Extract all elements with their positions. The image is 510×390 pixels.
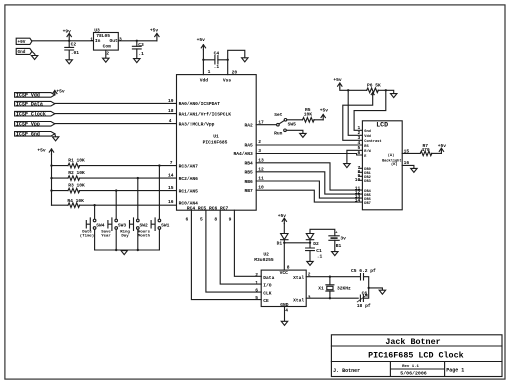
- wire D2 anode to battery: [310, 229, 335, 236]
- svg-text:PIC16F685 LCD Clock: PIC16F685 LCD Clock: [368, 351, 464, 361]
- LCD module: [362, 121, 402, 210]
- svg-text:M3u0255: M3u0255: [254, 257, 274, 263]
- pushbutton switch SW4: [80, 218, 105, 238]
- svg-text:5: 5: [255, 295, 258, 301]
- wire LCD R/W to ground: [347, 150, 363, 163]
- junction X1 bottom: [329, 297, 331, 299]
- svg-text:Gnd: Gnd: [364, 129, 370, 134]
- svg-text:5: 5: [200, 216, 203, 222]
- svg-text:DB3: DB3: [364, 180, 370, 184]
- wire +5v to D1 anode: [283, 224, 285, 234]
- svg-text:C4: C4: [214, 50, 220, 56]
- diode D1: [277, 234, 288, 247]
- ground below switches: [121, 251, 127, 255]
- node +5v at C3: [136, 40, 138, 42]
- wire ICSP Vpp to RA3 pin 4: [55, 123, 177, 125]
- svg-text:ICSP Gnd: ICSP Gnd: [16, 132, 40, 138]
- connector tag ICSP Vpp: [15, 122, 55, 128]
- wire U1 Vss pin 20 to ground: [228, 50, 245, 74]
- svg-text:RA5: RA5: [245, 142, 254, 148]
- svg-text:RC2/AN6: RC2/AN6: [179, 176, 199, 182]
- svg-text:B1: B1: [336, 243, 342, 249]
- junction R3 to SW3: [115, 189, 117, 191]
- svg-text:+9V: +9V: [18, 40, 26, 45]
- svg-text:SW1: SW1: [161, 222, 170, 228]
- svg-text:Page 1: Page 1: [446, 368, 464, 374]
- ground below C2: [66, 60, 72, 64]
- svg-text:P6 5K: P6 5K: [367, 82, 381, 88]
- wire rail to R1: [52, 165, 69, 167]
- svg-text:18 pf: 18 pf: [357, 303, 371, 309]
- wire R4 to RC0 pin 16: [79, 204, 176, 206]
- svg-text:10K: 10K: [304, 112, 313, 118]
- resistor R4: [68, 203, 80, 208]
- svg-text:ICSP Data: ICSP Data: [16, 102, 43, 108]
- svg-text:8: 8: [214, 216, 217, 222]
- LCD DB0-DB3 pin stubs: [359, 168, 363, 180]
- svg-text:RA3/!MCLR/Vpp: RA3/!MCLR/Vpp: [179, 122, 215, 128]
- wire C6 to ground node: [363, 288, 368, 298]
- wire SW1 branch vertical from resistor: [158, 166, 160, 250]
- wire R5 to +5v: [314, 119, 323, 121]
- capacitor C3 plates: [132, 46, 141, 49]
- connector tag ICSP Clock: [15, 111, 55, 117]
- voltage regulator U3 78L05: [90, 28, 122, 57]
- capacitor C2 plates: [65, 47, 74, 50]
- ground at U1 Vss: [242, 58, 248, 62]
- svg-text:SW3: SW3: [118, 222, 127, 228]
- svg-text:RB5: RB5: [245, 170, 254, 176]
- svg-text:4: 4: [169, 118, 172, 124]
- title block: [331, 335, 502, 377]
- wire RB6 pin 11 to LCD DB6: [256, 181, 362, 198]
- ground below C3: [134, 59, 140, 63]
- LCD pin numbers: [355, 125, 410, 203]
- resistor R1: [68, 163, 80, 168]
- svg-text:R3 10K: R3 10K: [68, 182, 85, 188]
- svg-text:16: 16: [168, 199, 174, 205]
- svg-text:32KHz: 32KHz: [337, 286, 351, 292]
- microcontroller U1 PIC16F685: [177, 75, 257, 212]
- svg-text:(A): (A): [388, 153, 394, 158]
- svg-text:1: 1: [208, 69, 211, 75]
- svg-text:7: 7: [170, 160, 173, 166]
- wire U3 Com pin 2 to ground: [105, 50, 107, 58]
- wire +5v to P6 left: [340, 88, 367, 90]
- ground at SW5 Run: [300, 133, 306, 137]
- svg-text:2: 2: [255, 272, 258, 278]
- P6 zigzag: [367, 88, 379, 93]
- svg-text:VCC: VCC: [280, 270, 289, 276]
- svg-text:+5v: +5v: [320, 108, 329, 114]
- capacitor C1 plates: [306, 248, 315, 251]
- junction rail R1: [50, 164, 52, 166]
- power symbol +5v at R7: [438, 143, 447, 153]
- wire R7 to +5v: [432, 152, 442, 154]
- connector tag Gnd input: [16, 48, 32, 55]
- wire D1 node to D2 node: [284, 242, 310, 244]
- svg-text:1: 1: [255, 280, 258, 286]
- svg-text:R/W: R/W: [364, 149, 371, 154]
- svg-text:6: 6: [255, 288, 258, 294]
- power symbol +5v at U1 Vdd: [197, 37, 206, 50]
- wire R3 to RC1 pin 15: [79, 190, 176, 192]
- svg-text:C6: C6: [362, 290, 368, 296]
- power symbol +5v at R5: [320, 108, 329, 120]
- wire U2 Xtal bottom to C6: [306, 297, 358, 299]
- svg-text:.1: .1: [138, 51, 144, 57]
- svg-text:(K): (K): [391, 162, 397, 167]
- svg-text:SW2: SW2: [140, 222, 149, 228]
- ground at LCD backlight: [411, 168, 417, 172]
- svg-text:5/06/2006: 5/06/2006: [400, 371, 426, 377]
- capacitor C5 6.2 pf: [351, 268, 376, 280]
- svg-text:C2: C2: [71, 41, 77, 47]
- pushbutton switch SW1: [138, 218, 170, 238]
- svg-text:ICSP Vdd: ICSP Vdd: [16, 93, 40, 99]
- svg-text:Data: Data: [263, 275, 274, 281]
- wire U2 GND pin 4 to ground: [284, 307, 286, 322]
- wire RB5 pin 12 to LCD DB5: [256, 172, 362, 194]
- svg-text:U1: U1: [213, 134, 219, 140]
- svg-text:RC3/AN7: RC3/AN7: [179, 163, 199, 169]
- power symbol +5v at D1: [278, 213, 287, 224]
- svg-text:+5v: +5v: [438, 143, 447, 149]
- wire battery to ground: [334, 240, 336, 251]
- svg-text:RB6: RB6: [245, 179, 254, 185]
- wire switch common to ground: [95, 249, 160, 251]
- svg-text:+5v: +5v: [333, 77, 342, 83]
- ground below C1: [307, 261, 313, 265]
- wire U2 Xtal top to C5: [306, 276, 360, 278]
- svg-text:18: 18: [168, 108, 174, 114]
- wire +5v to LCD Vdd pin 2: [348, 90, 362, 135]
- power symbol +9v at C2: [63, 29, 72, 41]
- svg-text:LCD: LCD: [376, 122, 388, 129]
- junction D2 C1 node: [309, 242, 311, 244]
- svg-text:Gnd: Gnd: [18, 50, 26, 55]
- svg-text:J. Botner: J. Botner: [333, 368, 360, 374]
- svg-text:3: 3: [119, 36, 122, 42]
- svg-text:Vdd: Vdd: [364, 134, 370, 139]
- node +9v at C2: [68, 40, 70, 42]
- svg-text:3v: 3v: [340, 235, 346, 241]
- svg-text:Out: Out: [110, 38, 119, 44]
- resistor R7 zigzag: [420, 151, 432, 156]
- crystal X1 32KHz: [318, 277, 351, 299]
- svg-text:RA4/AN3: RA4/AN3: [233, 151, 253, 157]
- svg-text:Set: Set: [274, 112, 283, 118]
- power symbol +5v at ICSP Vdd: [53, 89, 65, 95]
- wire RA2 pin 17 to SW5 common: [256, 124, 276, 126]
- wire ICSP Clock to RA1 pin 18: [55, 113, 177, 115]
- svg-text:RC4 RC5 RC6 RC7: RC4 RC5 RC6 RC7: [187, 206, 229, 212]
- junction SW2 common: [137, 249, 139, 251]
- power symbol +5v at U3 output: [150, 28, 159, 41]
- svg-text:+5v: +5v: [56, 89, 65, 95]
- svg-text:+5v: +5v: [278, 213, 287, 219]
- svg-text:.1: .1: [317, 253, 323, 259]
- wire LCD pin 15 to R7: [402, 152, 420, 154]
- svg-text:Run: Run: [274, 130, 283, 136]
- svg-text:Xtal: Xtal: [293, 298, 304, 304]
- ground at input Gnd tag: [31, 56, 37, 60]
- connector tag ICSP Vdd: [15, 93, 55, 99]
- wire P6 wiper to LCD Contrast: [343, 95, 373, 140]
- svg-text:RB4: RB4: [245, 161, 254, 167]
- pushbutton switch SW2: [120, 218, 148, 238]
- junction rail R3: [50, 189, 52, 191]
- svg-text:8: 8: [287, 264, 290, 270]
- wire RC7 pin 9 to U2 Data: [234, 210, 261, 276]
- svg-text:78L05: 78L05: [96, 33, 110, 39]
- wire +5v to U1 Vdd pin 1: [202, 50, 204, 75]
- svg-text:4: 4: [285, 308, 288, 314]
- ground below U3 Com: [103, 58, 109, 62]
- svg-text:RA0/AN0/ICSPDAT: RA0/AN0/ICSPDAT: [179, 101, 221, 107]
- svg-text:+: +: [335, 232, 338, 236]
- resistor R2: [68, 176, 80, 181]
- svg-text:ICSP Vpp: ICSP Vpp: [16, 122, 40, 128]
- potentiometer P6 5K: [367, 82, 381, 95]
- svg-text:+5v: +5v: [37, 148, 46, 154]
- wire rail to R2: [52, 177, 69, 179]
- resistor R3: [68, 188, 80, 193]
- resistor R5 10K: [303, 107, 315, 122]
- svg-text:470: 470: [421, 147, 430, 153]
- svg-text:Xtal: Xtal: [293, 275, 304, 281]
- svg-text:X1: X1: [318, 285, 324, 291]
- svg-text:Month: Month: [138, 233, 151, 238]
- wire ICSP Data to RA0 pin 19: [55, 102, 177, 104]
- svg-text:3: 3: [308, 294, 311, 300]
- svg-text:9: 9: [229, 216, 232, 222]
- svg-text:+9v: +9v: [63, 29, 72, 35]
- capacitor C1: [306, 243, 323, 262]
- svg-text:C5 6.2 pf: C5 6.2 pf: [351, 268, 376, 274]
- wire ICSP Gnd to ground: [54, 134, 57, 137]
- junction R2 to SW2: [137, 177, 139, 179]
- junction R1 to SW1: [158, 164, 160, 166]
- capacitor C2: [65, 41, 80, 60]
- svg-text:+5v: +5v: [197, 37, 206, 43]
- capacitor C3: [132, 41, 144, 59]
- junction R4 to SW4: [93, 204, 95, 206]
- RTC U2 M3u0255: [254, 251, 306, 308]
- wire Gnd tag to ground: [32, 51, 35, 55]
- svg-text:R2 10K: R2 10K: [68, 170, 85, 176]
- ground at ICSP Gnd tag: [52, 137, 58, 141]
- svg-text:19: 19: [168, 98, 174, 104]
- wire SW4 branch vertical from resistor: [94, 205, 96, 250]
- svg-text:(Time): (Time): [80, 233, 94, 238]
- svg-text:DB7: DB7: [364, 202, 370, 206]
- battery B1 3v: [329, 232, 346, 250]
- svg-text:Vdd: Vdd: [200, 78, 209, 84]
- svg-text:14: 14: [168, 173, 174, 179]
- junction rail R2: [50, 177, 52, 179]
- wire RC6 pin 8 to U2 I/O: [220, 210, 261, 284]
- svg-text:Contrast: Contrast: [364, 139, 381, 144]
- svg-text:1: 1: [90, 36, 93, 42]
- svg-text:2: 2: [258, 139, 261, 145]
- svg-text:D2: D2: [313, 241, 319, 247]
- svg-text:.1: .1: [214, 64, 220, 70]
- U2 pin numbers: [255, 264, 311, 313]
- svg-text:RB7: RB7: [245, 188, 254, 194]
- junction +5v LCD Vdd: [347, 89, 349, 91]
- ground at crystal network: [379, 290, 385, 294]
- pushbutton switch SW3: [101, 218, 126, 238]
- slide switch SW5 Set/Run: [274, 112, 296, 136]
- junction D1 node: [283, 242, 285, 244]
- svg-text:I/O: I/O: [263, 283, 272, 289]
- svg-text:RC0/AN4: RC0/AN4: [179, 200, 199, 206]
- connector tag ICSP Gnd: [15, 132, 55, 138]
- svg-text:R1 10K: R1 10K: [68, 157, 85, 163]
- resistor R5 zigzag: [303, 118, 315, 123]
- svg-text:RA1/AN1/Vrf/ICSPCLK: RA1/AN1/Vrf/ICSPCLK: [179, 112, 232, 118]
- connector tag +9V input: [16, 38, 32, 45]
- wire rail to R3: [52, 190, 69, 192]
- wire LCD pin 16 to ground: [402, 165, 414, 168]
- svg-text:6: 6: [186, 216, 189, 222]
- wire R2 to RC2 pin 14: [79, 177, 176, 179]
- svg-text:Vss: Vss: [223, 78, 232, 84]
- svg-text:RC1/AN5: RC1/AN5: [179, 189, 199, 195]
- svg-text:C3: C3: [138, 42, 144, 48]
- ground below U2: [281, 321, 287, 325]
- junction SW3 common: [115, 249, 117, 251]
- ground at P6: [391, 94, 397, 98]
- wire D2 cathode stub: [309, 240, 311, 243]
- wire SW2 branch vertical from resistor: [137, 178, 139, 250]
- wire RC4 pin 6 to U2 CE: [191, 210, 261, 299]
- svg-text:+5v: +5v: [150, 28, 159, 34]
- svg-text:2: 2: [106, 51, 109, 57]
- svg-text:CLK: CLK: [263, 291, 272, 297]
- wire RA4 pin 3 to LCD E: [256, 154, 362, 156]
- svg-text:20: 20: [232, 69, 238, 75]
- svg-text:SW4: SW4: [96, 222, 105, 228]
- wire crystal node to ground: [369, 288, 383, 290]
- svg-text:Year: Year: [101, 233, 111, 238]
- svg-text:.01: .01: [71, 50, 80, 56]
- wire RB4 pin 13 to LCD DB4: [256, 163, 362, 190]
- svg-text:Day: Day: [121, 234, 129, 238]
- resistor R7 470: [420, 143, 432, 156]
- junction X1 top: [329, 276, 331, 278]
- svg-text:R4 10K: R4 10K: [67, 198, 84, 204]
- svg-text:PIC16F685: PIC16F685: [203, 140, 228, 146]
- trimmer capacitor C6 18 pf: [357, 290, 371, 309]
- wire +9V to U3 In: [32, 40, 94, 42]
- wire SW5 Set to R5: [287, 119, 303, 121]
- wire RB7 pin 10 to LCD DB7: [256, 190, 362, 202]
- wire C5 to ground node: [364, 277, 369, 288]
- wire P6 right to ground: [378, 90, 394, 93]
- svg-text:U3: U3: [94, 28, 100, 34]
- wire D1 cathode to U2 VCC pin 8: [283, 240, 285, 270]
- wire rail to R4: [52, 204, 69, 206]
- svg-text:Rev 1.1: Rev 1.1: [402, 365, 419, 369]
- svg-text:15: 15: [168, 185, 174, 191]
- wire U3 Out to +5v node: [118, 40, 157, 42]
- svg-text:Com: Com: [103, 44, 112, 50]
- capacitor C4: [203, 50, 227, 69]
- ground below battery B1: [332, 252, 338, 256]
- svg-text:ICSP Clock: ICSP Clock: [16, 112, 46, 118]
- diode D2: [306, 234, 319, 247]
- power symbol +5v at pullup rail: [37, 148, 53, 155]
- U1 pin numbers: [168, 69, 264, 222]
- svg-text:D1: D1: [277, 240, 283, 246]
- wire RA5 pin 2 to LCD RS: [256, 144, 362, 146]
- wire +5v rail vertical: [51, 154, 53, 205]
- junction Vss C4: [227, 59, 229, 61]
- wire ground to LCD Gnd pin 1: [354, 90, 386, 130]
- wire RC5 pin 5 to U2 CLK: [206, 210, 261, 292]
- svg-text:CE: CE: [263, 298, 269, 304]
- connector tag ICSP Data: [15, 101, 55, 107]
- svg-text:Jack Botner: Jack Botner: [385, 337, 440, 347]
- wire SW3 branch vertical from resistor: [115, 191, 117, 250]
- junction P6 LCD Gnd: [385, 89, 387, 91]
- wire ICSP Vdd to +5v: [54, 94, 56, 95]
- junction Vdd C4: [202, 59, 204, 61]
- junction ground node crystal: [368, 287, 370, 289]
- wire SW5 Run to ground: [286, 130, 303, 133]
- wire R1 to RC3 pin 7: [79, 165, 176, 167]
- svg-text:RA2: RA2: [245, 123, 254, 129]
- svg-text:C1: C1: [316, 248, 322, 254]
- power symbol +5v at P6: [333, 77, 342, 88]
- ground at LCD R/W: [344, 164, 350, 168]
- svg-text:U2: U2: [263, 251, 269, 257]
- svg-text:SW5: SW5: [288, 122, 297, 128]
- svg-text:In: In: [95, 38, 101, 44]
